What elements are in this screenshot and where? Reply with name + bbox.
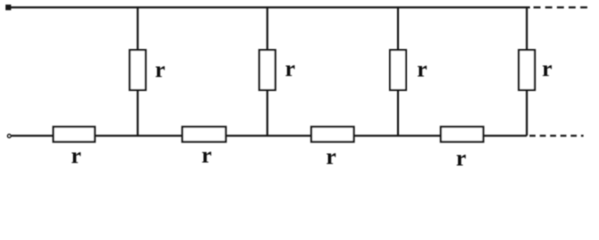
svg-text:r: r (326, 144, 336, 169)
svg-text:r: r (202, 143, 212, 168)
svg-text:r: r (456, 146, 466, 171)
svg-text:r: r (155, 57, 165, 82)
svg-text:r: r (71, 143, 81, 168)
svg-text:r: r (542, 56, 552, 81)
svg-text:r: r (285, 56, 295, 81)
svg-text:r: r (417, 57, 427, 82)
